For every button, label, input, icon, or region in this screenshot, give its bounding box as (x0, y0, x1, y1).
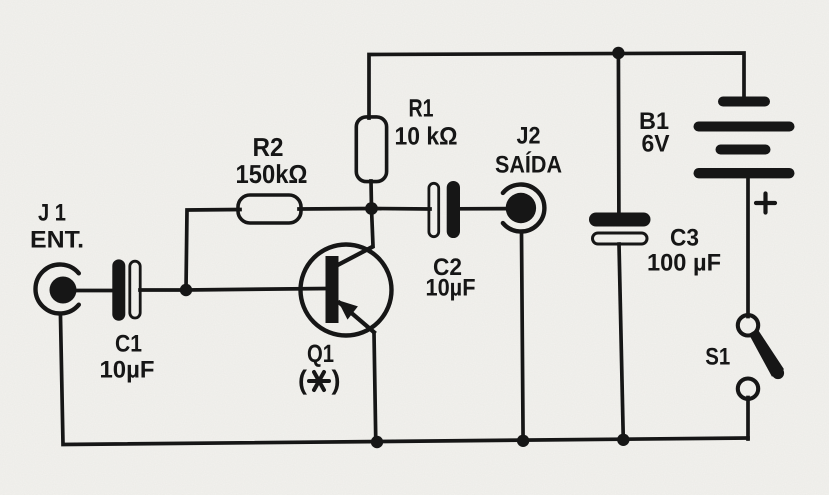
paper background (0, 0, 1, 1)
wire collector node down to Q1 (372, 209, 374, 247)
wire battery to switch (746, 177, 750, 317)
label plus (756, 194, 775, 213)
wire J1 to C1 (72, 289, 114, 293)
wire J2 down to bottom rail (522, 233, 524, 441)
svg-text:J2: J2 (517, 123, 541, 150)
svg-text:10µF: 10µF (100, 357, 155, 384)
svg-text:10 kΩ: 10 kΩ (395, 123, 458, 151)
node C3 bottom junction (617, 434, 629, 446)
capacitor C2 (429, 181, 460, 238)
wire Q1 emitter down to bottom rail (374, 333, 376, 443)
wire C3 down to bottom rail (619, 244, 623, 440)
resistor R1 (356, 117, 386, 182)
svg-text:): ) (332, 365, 341, 395)
battery B1 (694, 97, 795, 179)
svg-text:J 1: J 1 (38, 200, 66, 227)
wire bottom rail (61, 317, 749, 445)
svg-text:R2: R2 (253, 132, 284, 162)
svg-text:ENT.: ENT. (30, 227, 84, 254)
node J2 bottom junction (517, 435, 529, 447)
svg-text:10µF: 10µF (426, 275, 476, 302)
svg-text:(: ( (298, 365, 307, 395)
svg-text:Q1: Q1 (307, 340, 334, 368)
node base junction (180, 284, 192, 296)
node emitter bottom junction (371, 436, 383, 448)
wire R1 bottom to collector node (369, 181, 373, 209)
wire C1 to base node (140, 288, 186, 292)
svg-text:150kΩ: 150kΩ (236, 159, 308, 189)
wire base node riser to R2 (186, 210, 240, 291)
jack J2 (503, 185, 545, 232)
node top rail C3 junction (612, 47, 624, 59)
svg-text:R1: R1 (409, 95, 434, 123)
svg-text:S1: S1 (705, 344, 730, 371)
svg-text:100 µF: 100 µF (647, 250, 721, 277)
wire C2 to J2 (458, 207, 508, 211)
switch S1 (738, 315, 784, 399)
svg-text:6V: 6V (642, 131, 670, 158)
node collector junction (365, 202, 378, 215)
wire switch to bottom rail (746, 398, 750, 440)
wire top rail (369, 53, 744, 118)
svg-text:SAÍDA: SAÍDA (495, 151, 562, 179)
transistor Q1 (301, 245, 392, 336)
wire base node to Q1 base (186, 289, 327, 291)
jack J1 (35, 265, 78, 314)
wire top rail to C3 (617, 53, 621, 214)
wire R2 to collector node (299, 207, 372, 211)
resistor R2 (238, 195, 301, 223)
label (*) (298, 365, 341, 395)
svg-text:C3: C3 (670, 225, 699, 252)
capacitor C3 (589, 213, 651, 245)
capacitor C1 (112, 259, 140, 320)
wire collector node to C2 (372, 207, 431, 211)
svg-text:C1: C1 (115, 331, 142, 358)
